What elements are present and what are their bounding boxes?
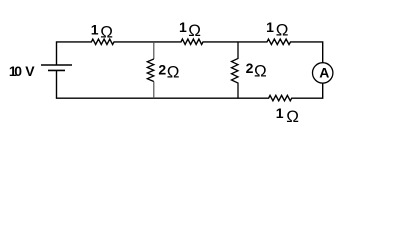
battery V1 long plate [41,64,72,66]
svg-text:1: 1 [276,105,284,121]
svg-text:1: 1 [91,21,99,37]
wire branch 2 with resistor R6 2 ohm vertical zigzag [232,42,239,98]
svg-text:0: 0 [14,63,22,79]
svg-text:Ω: Ω [167,63,180,82]
svg-text:Ω: Ω [100,23,113,42]
wire branch 1 lower stub [153,82,155,99]
svg-text:V: V [25,63,35,79]
battery V1 short plate [48,69,65,71]
svg-text:2: 2 [158,61,166,77]
svg-text:Ω: Ω [254,62,267,81]
svg-text:Ω: Ω [188,21,201,40]
svg-text:A: A [319,64,329,80]
resistor R5 2 ohm vertical zigzag [147,59,154,82]
svg-text:2: 2 [246,60,254,76]
svg-text:Ω: Ω [276,21,289,40]
wire top and sides of outer loop [57,39,323,65]
svg-text:Ω: Ω [286,107,299,126]
wire bottom of outer loop with resistor R4 [57,71,323,101]
svg-text:1: 1 [179,19,187,35]
ammeter A1 circle [313,63,333,83]
svg-text:1: 1 [266,19,274,35]
wire branch 1 upper stub [153,42,155,59]
